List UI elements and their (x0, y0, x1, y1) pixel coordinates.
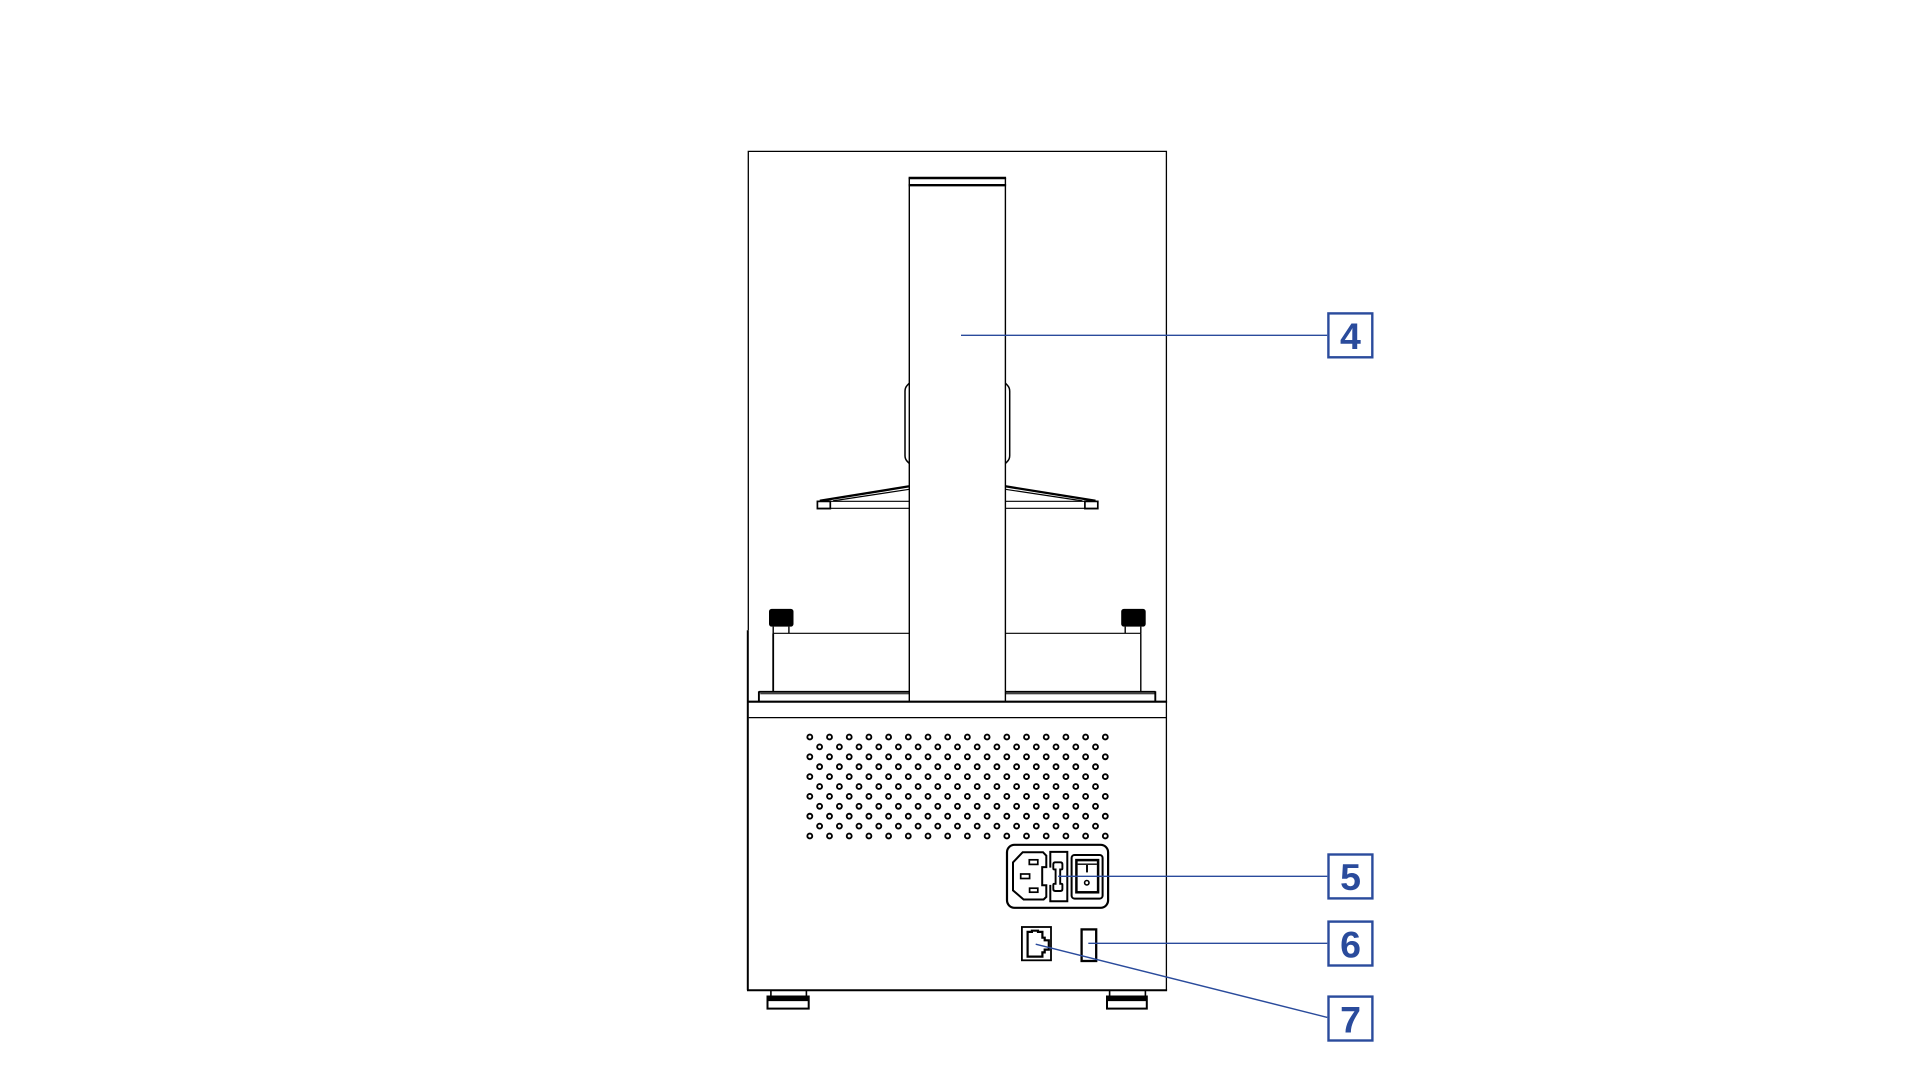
rocker I mark (1086, 865, 1088, 872)
rail bump left (905, 383, 909, 463)
plate end cap left (817, 501, 830, 508)
base seam (749, 717, 1166, 719)
shelf ledge (759, 691, 1156, 702)
IEC C14 inlet (1013, 852, 1046, 899)
housing left lower edge (747, 630, 749, 990)
fuse capsule (1053, 862, 1062, 891)
plate end cap right (1085, 501, 1098, 508)
vat neck right (1125, 627, 1141, 634)
vent hole grid (807, 735, 1107, 839)
platform brace left (820, 486, 910, 501)
rocker switch frame (1072, 855, 1103, 899)
vat knob left (769, 609, 794, 627)
vat neck left (773, 627, 789, 634)
rocker top line (1078, 863, 1097, 865)
svg-text:5: 5 (1340, 856, 1361, 898)
vat top edge (773, 632, 1141, 634)
usb port jack (1028, 931, 1049, 957)
callout box 4 (1328, 313, 1372, 357)
housing: upper enclosure outline (748, 151, 1166, 990)
foot right (1107, 990, 1147, 1008)
column: Z-axis tower (909, 178, 1007, 702)
callout box 7 (1329, 997, 1373, 1041)
rail bump right (1005, 383, 1009, 463)
svg-text:6: 6 (1340, 923, 1361, 965)
leader line 7 (1036, 944, 1328, 1017)
pin bottom (1030, 888, 1038, 892)
fuse holder (1050, 852, 1067, 901)
pin middle (1021, 874, 1030, 879)
pin top (1029, 860, 1038, 865)
callout box 6 (1329, 922, 1373, 966)
svg-text:4: 4 (1340, 315, 1361, 357)
build platform plate (817, 501, 1098, 508)
leader line 5 (1058, 875, 1327, 877)
vat wall left (772, 633, 774, 691)
rocker switch button (1076, 860, 1098, 892)
base box (747, 702, 1167, 991)
foot left (768, 990, 809, 1008)
vat wall right (1140, 633, 1142, 691)
vat knob right (1121, 609, 1146, 627)
leader line 4 (961, 334, 1327, 336)
leader line 6 (1088, 942, 1327, 944)
callout box 5 (1329, 855, 1373, 899)
reset button (1082, 929, 1097, 961)
platform brace right (1005, 486, 1095, 501)
power inlet module outline (1007, 845, 1108, 908)
svg-text:7: 7 (1340, 998, 1361, 1040)
rocker O mark (1085, 881, 1089, 885)
usb port frame (1022, 927, 1051, 960)
